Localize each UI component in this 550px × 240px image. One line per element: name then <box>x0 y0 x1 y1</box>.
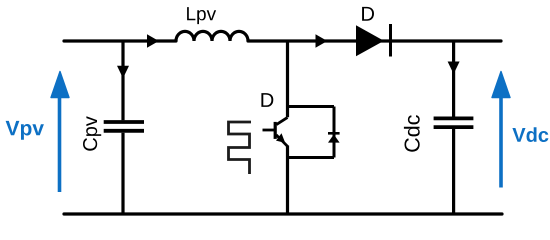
capacitor Cdc top plate <box>434 117 474 121</box>
antiparallel diode cathode bar <box>328 132 340 135</box>
wire switch branch emitter <box>286 146 289 215</box>
label Cpv (rotated) <box>83 116 101 151</box>
wire Cdc branch upper <box>452 40 455 117</box>
wire bottom rail <box>64 212 502 215</box>
current arrow down Cpv branch <box>117 66 129 79</box>
inductor Lpv <box>176 31 248 41</box>
transistor collector diagonal <box>276 117 287 124</box>
capacitor Cpv bottom plate <box>104 129 144 133</box>
transistor base bar <box>274 122 277 139</box>
voltage arrow Vpv <box>58 93 62 192</box>
wire Cdc branch lower <box>452 129 455 214</box>
transistor emitter diagonal <box>276 135 287 147</box>
capacitor Cpv top plate <box>104 120 144 124</box>
antiparallel diode triangle <box>328 134 340 142</box>
wire Cpv branch upper <box>121 40 124 121</box>
label Cdc (rotated) <box>404 115 420 152</box>
transistor emitter arrow <box>276 133 285 143</box>
label D (diode) <box>362 7 374 21</box>
wire Cpv branch lower <box>121 133 124 214</box>
wire switch branch collector <box>286 40 289 118</box>
wire top rail right segment <box>248 39 501 42</box>
diode D cathode bar <box>389 24 392 57</box>
transistor base lead <box>263 129 275 132</box>
capacitor Cdc bottom plate <box>434 125 474 129</box>
current arrow down Cdc branch <box>448 62 460 75</box>
label D (switch) <box>261 93 273 107</box>
gate pulse squarewave symbol <box>229 122 252 174</box>
wire antiparallel loop right <box>333 107 336 158</box>
label Vpv <box>6 121 44 140</box>
wire antiparallel loop bottom <box>288 156 335 159</box>
wire top rail left segment <box>64 39 176 42</box>
label Vdc <box>512 127 548 142</box>
wire antiparallel loop top <box>288 105 335 108</box>
current arrow into diode D <box>316 34 328 48</box>
current arrow into Lpv <box>147 34 159 48</box>
label Lpv <box>187 7 216 24</box>
voltage arrow Vdc <box>499 93 503 188</box>
diode D triangle <box>356 25 384 56</box>
